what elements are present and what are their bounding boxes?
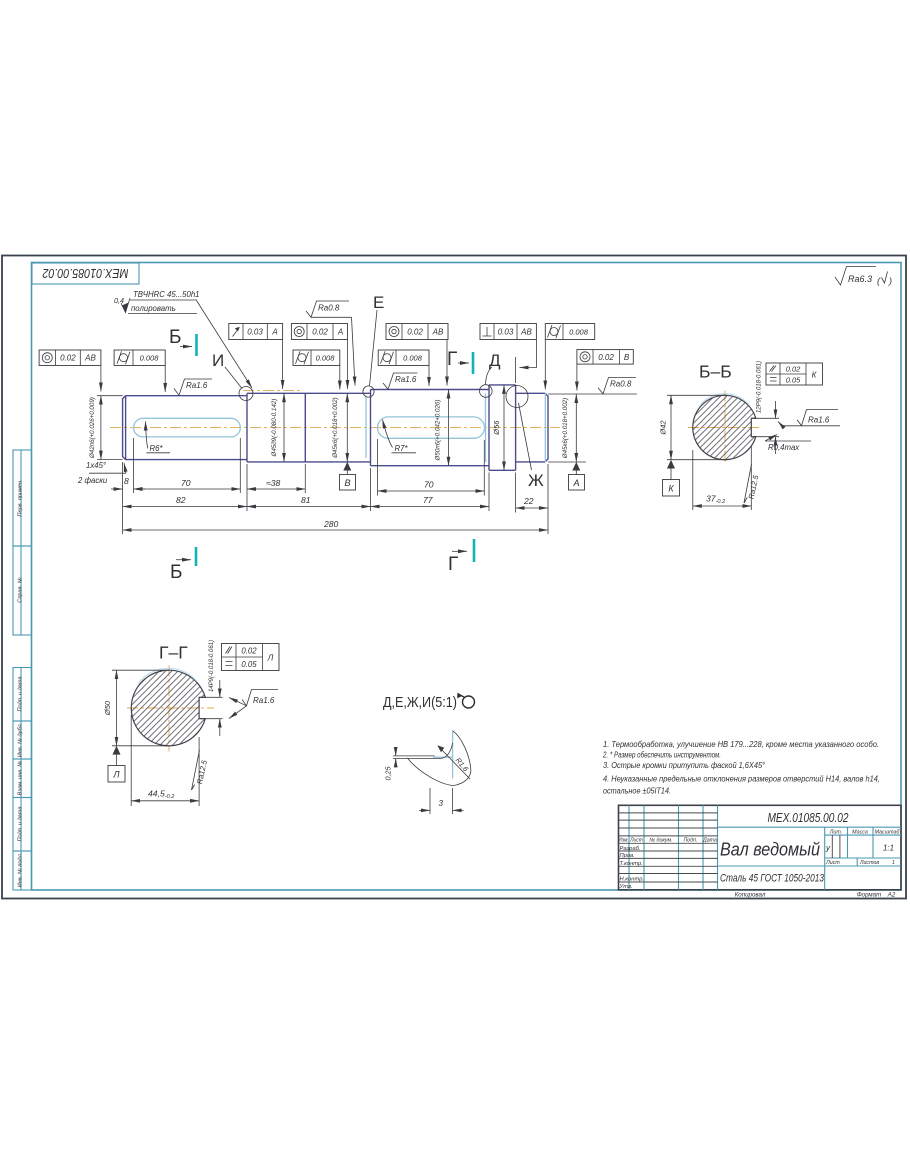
svg-text:Ø50п6(+0.042+0.026): Ø50п6(+0.042+0.026) bbox=[435, 400, 442, 462]
detail dim 0.25 bbox=[384, 748, 396, 781]
svg-text:Л: Л bbox=[112, 770, 120, 780]
roughness Ra1.6 on Ø50 bbox=[383, 373, 418, 389]
dim 8 bbox=[111, 476, 145, 489]
svg-text:В: В bbox=[624, 353, 630, 362]
dim ≈38 bbox=[247, 478, 305, 489]
svg-text:70: 70 bbox=[181, 478, 191, 488]
Ra1.6 with leaders (Г-Г notch) bbox=[229, 690, 278, 719]
svg-text:А: А bbox=[271, 328, 277, 337]
designation box rotated 180 bbox=[32, 263, 139, 284]
Ra12.5 rotated (Г-Г) bbox=[192, 750, 210, 790]
svg-text:0,25: 0,25 bbox=[384, 766, 393, 781]
dim 12Р9 keyway width bbox=[751, 361, 779, 454]
svg-text:Ø50: Ø50 bbox=[103, 700, 112, 716]
label R7* with leader bbox=[383, 420, 417, 454]
FCF coaxiality 0.02 АВ (far left) bbox=[39, 350, 101, 392]
keyway 2 (R7) bbox=[378, 417, 485, 438]
dim Ø50 with datum Л bbox=[103, 670, 170, 782]
shaft axis centerline bbox=[110, 427, 560, 429]
dim 70 (keyway 2) bbox=[378, 480, 485, 492]
roughness Ra0.8 right with extension bbox=[548, 378, 637, 395]
extension lines below shaft bbox=[123, 438, 548, 534]
svg-text:Ø42п6(+0.026+0.009): Ø42п6(+0.026+0.009) bbox=[89, 397, 96, 459]
left margin stamp: Инв. № подл. bbox=[13, 851, 32, 890]
svg-text:Г–Г: Г–Г bbox=[159, 643, 188, 663]
FCF parallel/symmetry К bbox=[766, 363, 823, 385]
svg-text:Инв. № дубл.: Инв. № дубл. bbox=[18, 723, 24, 757]
svg-text:Г: Г bbox=[447, 349, 457, 370]
title block right part grid bbox=[718, 827, 902, 890]
svg-text:R6*: R6* bbox=[150, 444, 164, 453]
svg-text:Ra0.8: Ra0.8 bbox=[318, 304, 340, 313]
section mark Г top bbox=[447, 349, 473, 374]
label Ж with leader bbox=[519, 403, 545, 490]
dim 82 bbox=[123, 495, 247, 507]
dim 70 (keyway 1) bbox=[134, 478, 241, 489]
svg-text:0.02: 0.02 bbox=[60, 354, 76, 363]
svg-text:Взам. инв. №: Взам. инв. № bbox=[18, 761, 24, 796]
FCF perpendicularity 0.03 АВ bbox=[480, 324, 536, 384]
dim Ø42 with datum К bbox=[659, 395, 728, 496]
title block change-row lines bbox=[619, 813, 718, 882]
Г-Г hatched section with keyway notch bbox=[131, 670, 205, 746]
svg-text:Лит.: Лит. bbox=[829, 829, 842, 835]
svg-text:Ra1.6: Ra1.6 bbox=[808, 416, 830, 425]
dim Ø56 bbox=[492, 385, 504, 470]
svg-text:1: 1 bbox=[892, 860, 895, 866]
svg-text:): ) bbox=[888, 276, 892, 286]
svg-text:Д: Д bbox=[489, 351, 501, 370]
Ra12.5 rotated (Б-Б) bbox=[744, 464, 761, 503]
dim 44.5-0.2 bbox=[131, 715, 199, 806]
FCF coaxiality 0.02 В (right) bbox=[577, 350, 633, 391]
right face chamfer edge light blue bbox=[544, 393, 546, 462]
svg-text:И: И bbox=[212, 351, 224, 370]
svg-text:Инв. № подл.: Инв. № подл. bbox=[18, 853, 24, 888]
Ra1.6 with leader (Б-Б flat) bbox=[778, 410, 840, 426]
svg-text:Вал ведомый: Вал ведомый bbox=[720, 839, 820, 860]
svg-text:Ж: Ж bbox=[528, 471, 544, 490]
left margin stamp: Инв. № дубл. bbox=[13, 721, 32, 759]
svg-text:А: А bbox=[337, 328, 343, 337]
Б-Б light blue rim arc bbox=[701, 394, 749, 405]
svg-text:Ra1.6: Ra1.6 bbox=[253, 696, 275, 705]
left margin stamp: Подп. и дата (lower) bbox=[13, 798, 32, 852]
svg-text:0.03: 0.03 bbox=[247, 328, 263, 337]
svg-text:0.02: 0.02 bbox=[598, 353, 614, 362]
svg-text:70: 70 bbox=[424, 480, 434, 490]
svg-text:81: 81 bbox=[301, 495, 311, 505]
detail groove profile bbox=[393, 731, 471, 786]
keyway 1 (R6) bbox=[134, 418, 241, 437]
svg-text:12Р9(-0.018-0.061): 12Р9(-0.018-0.061) bbox=[757, 361, 763, 413]
left margin stamp: Подп. и дата (upper) bbox=[13, 668, 32, 722]
shaft collar Ø56 outline bbox=[489, 385, 516, 470]
dim Ø45к6 (mid) with datum В bbox=[332, 393, 356, 490]
FCF cylindricity 0.008 (right) bbox=[545, 324, 594, 390]
svg-text:Перв. примен.: Перв. примен. bbox=[18, 479, 24, 516]
svg-text:Утв.: Утв. bbox=[619, 884, 633, 890]
svg-text:8: 8 bbox=[124, 476, 129, 486]
svg-text:полировать: полировать bbox=[131, 304, 176, 313]
svg-text:Б: Б bbox=[169, 327, 181, 348]
svg-text:0.03: 0.03 bbox=[498, 328, 514, 337]
svg-text:77: 77 bbox=[423, 495, 434, 505]
svg-text:Г: Г bbox=[448, 554, 458, 575]
dim 14Р9 keyway width (Г-Г) bbox=[199, 640, 222, 736]
FCF cylindricity 0.008 (mid-right) bbox=[378, 350, 429, 386]
svg-text:82: 82 bbox=[176, 495, 186, 505]
svg-text:0.02: 0.02 bbox=[407, 328, 423, 337]
label Д with leader bbox=[486, 351, 502, 385]
svg-text:Пров.: Пров. bbox=[620, 853, 635, 859]
svg-text:0.02: 0.02 bbox=[786, 365, 801, 374]
svg-text:Лист: Лист bbox=[825, 860, 840, 866]
detail dim 3 bbox=[419, 788, 464, 814]
FCF cylindricity 0.008 (mid) bbox=[293, 350, 340, 390]
svg-text:Т.контр.: Т.контр. bbox=[620, 861, 643, 867]
label Е with leader bbox=[370, 293, 385, 386]
svg-text:А: А bbox=[572, 478, 579, 488]
svg-text:0.02: 0.02 bbox=[312, 328, 328, 337]
dim 280 bbox=[123, 519, 548, 530]
svg-text:Изм.: Изм. bbox=[618, 837, 629, 843]
svg-text:3: 3 bbox=[439, 799, 444, 808]
svg-text:Ra0.8: Ra0.8 bbox=[610, 380, 632, 389]
svg-text:Ra1.6: Ra1.6 bbox=[186, 381, 208, 390]
svg-text:Ø45д9(-0.080-0.142): Ø45д9(-0.080-0.142) bbox=[271, 399, 278, 458]
svg-text:Разраб.: Разраб. bbox=[620, 846, 641, 852]
FCF parallel/symmetry Л bbox=[222, 644, 280, 671]
roughness Ra0.8 for groove Е with leader bbox=[306, 301, 355, 386]
svg-text:1. Термообработка, улучшение Н: 1. Термообработка, улучшение НВ 179...22… bbox=[603, 740, 879, 749]
svg-text:R0,4max: R0,4max bbox=[768, 443, 800, 452]
svg-text:Лист: Лист bbox=[629, 837, 643, 843]
svg-text:Формат: Формат bbox=[857, 892, 882, 899]
dim 22 bbox=[516, 496, 548, 508]
svg-text:14Р9(-0.018-0.061): 14Р9(-0.018-0.061) bbox=[209, 640, 215, 692]
svg-text:АВ: АВ bbox=[520, 328, 532, 337]
svg-text:МЕХ.01085.00.02: МЕХ.01085.00.02 bbox=[768, 810, 850, 825]
groove edge light blue at E bbox=[365, 397, 367, 459]
svg-text:0.008: 0.008 bbox=[403, 354, 423, 363]
left margin stamp: Взам. инв. № bbox=[13, 759, 32, 798]
section mark Г bottom bbox=[448, 539, 474, 575]
chamfer note 1x45 2 фаски bbox=[77, 461, 126, 485]
svg-text:0.008: 0.008 bbox=[140, 354, 160, 363]
dim Ø45к6 right with datum А bbox=[548, 394, 586, 490]
svg-text:0.008: 0.008 bbox=[569, 328, 589, 337]
roughness Ra1.6 on Ø42 bbox=[174, 379, 212, 395]
svg-text:Ø56: Ø56 bbox=[492, 420, 501, 436]
title block column lines left part bbox=[629, 805, 718, 890]
svg-text:Ø42: Ø42 bbox=[659, 420, 668, 436]
FCF cylindricity 0.008 (left) bbox=[114, 350, 165, 392]
left margin stamp: Справ. № bbox=[13, 546, 32, 635]
svg-text:1х45°: 1х45° bbox=[86, 461, 106, 470]
detail R1.6 label bbox=[437, 745, 470, 779]
Б-Б hatched section with keyway flat bbox=[693, 395, 756, 459]
svg-text:0.05: 0.05 bbox=[786, 376, 801, 385]
FCF runout 0.03 A bbox=[229, 324, 283, 390]
svg-text:0.02: 0.02 bbox=[241, 647, 257, 656]
svg-text:Е: Е bbox=[373, 293, 384, 312]
svg-text:2 фаски: 2 фаски bbox=[77, 476, 108, 485]
FCF coaxiality 0.02 A bbox=[291, 324, 347, 390]
Г-Г centerlines bbox=[127, 707, 214, 709]
R0.4max label bbox=[765, 435, 811, 453]
svg-text:Листов: Листов bbox=[859, 860, 880, 866]
dim Ø50п6 bbox=[435, 390, 449, 466]
svg-text:Дата: Дата bbox=[702, 838, 717, 844]
svg-text:2. * Размер обеспечить инструм: 2. * Размер обеспечить инструментом. bbox=[602, 751, 721, 760]
label R6* with leader bbox=[146, 422, 171, 454]
svg-text:Б: Б bbox=[170, 562, 182, 583]
svg-text:АВ: АВ bbox=[84, 354, 96, 363]
svg-text:Подп. и дата: Подп. и дата bbox=[18, 806, 24, 841]
svg-text:№ докум.: № докум. bbox=[649, 838, 672, 844]
dim 37-0.2 bbox=[693, 446, 752, 510]
svg-text:1:1: 1:1 bbox=[883, 844, 894, 853]
dim 81 bbox=[247, 495, 371, 507]
section mark Б top bbox=[169, 327, 197, 356]
sheet outer border bbox=[2, 256, 906, 899]
dim Ø45д9 bbox=[271, 393, 284, 462]
svg-text:280: 280 bbox=[323, 519, 339, 529]
groove circle Е bbox=[363, 386, 374, 397]
svg-text:Д,Е,Ж,И(5:1): Д,Е,Ж,И(5:1) bbox=[383, 694, 457, 711]
svg-text:Ra6.3: Ra6.3 bbox=[848, 274, 872, 284]
svg-text:4. Неуказанные предельные откл: 4. Неуказанные предельные отклонения раз… bbox=[603, 775, 880, 784]
svg-text:В: В bbox=[344, 478, 350, 488]
svg-text:остальное ±05IT14.: остальное ±05IT14. bbox=[603, 787, 671, 796]
svg-text:Л: Л bbox=[267, 654, 274, 663]
svg-text:А2: А2 bbox=[887, 892, 896, 899]
hardening note ТВЧ HRC with polish symbol bbox=[114, 290, 252, 388]
svg-text:0.008: 0.008 bbox=[316, 354, 336, 363]
left margin stamp: Перв. примен. bbox=[13, 450, 32, 546]
svg-text:R7*: R7* bbox=[395, 444, 409, 453]
svg-text:Справ. №: Справ. № bbox=[18, 577, 24, 602]
Lit sub-cell dividers bbox=[831, 835, 833, 858]
shaft section Ø42 outline bbox=[123, 396, 247, 460]
groove circle Д bbox=[480, 385, 493, 398]
title block outer border bbox=[619, 805, 902, 890]
label И with leader bbox=[212, 351, 242, 389]
svg-text:Ø45к6(+0.018+0.002): Ø45к6(+0.018+0.002) bbox=[562, 398, 569, 459]
FCF coaxiality 0.02 АВ bbox=[386, 324, 448, 386]
svg-text:Масса: Масса bbox=[852, 829, 868, 835]
groove centerline near step bbox=[243, 390, 301, 392]
svg-text:Подп.: Подп. bbox=[683, 838, 697, 844]
svg-text:≈38: ≈38 bbox=[266, 478, 280, 488]
detail title bbox=[383, 693, 475, 712]
svg-text:3. Острые кромки притупить фас: 3. Острые кромки притупить фаской 1,6Х45… bbox=[603, 761, 766, 770]
shaft section Ø45 outline bbox=[247, 393, 371, 462]
Б-Б centerlines bbox=[688, 427, 762, 429]
svg-text:Ra1.6: Ra1.6 bbox=[395, 375, 417, 384]
drawing inner frame bbox=[32, 263, 902, 891]
shaft section Ø50 outline bbox=[371, 390, 490, 466]
dim Ø42п6 left bbox=[89, 396, 123, 460]
groove circle И bbox=[239, 387, 253, 401]
svg-text:ТВЧHRC 45...50h1: ТВЧHRC 45...50h1 bbox=[133, 290, 200, 299]
svg-text:22: 22 bbox=[523, 496, 534, 506]
svg-text:Масштаб: Масштаб bbox=[875, 829, 901, 835]
svg-text:Сталь 45 ГОСТ 1050-2013: Сталь 45 ГОСТ 1050-2013 bbox=[720, 873, 825, 885]
shaft section Ø45k6 right outline bbox=[516, 393, 548, 462]
svg-text:0,4: 0,4 bbox=[114, 296, 124, 305]
title block bbox=[618, 805, 901, 898]
svg-text:Копировал: Копировал bbox=[735, 892, 766, 899]
svg-text:МЕХ.01085.00.02: МЕХ.01085.00.02 bbox=[42, 266, 128, 280]
svg-text:Н.контр.: Н.контр. bbox=[620, 877, 645, 883]
Г-Г light blue rim arc bbox=[138, 668, 197, 683]
svg-text:Подп. и дата: Подп. и дата bbox=[18, 676, 24, 711]
groove circle Ж bbox=[506, 386, 528, 408]
dim 77 bbox=[371, 495, 490, 507]
svg-text:0.05: 0.05 bbox=[241, 660, 257, 669]
svg-text:Ø45к6(+0.018+0.002): Ø45к6(+0.018+0.002) bbox=[332, 397, 339, 458]
groove edge light blue at Д bbox=[485, 394, 487, 463]
svg-text:АВ: АВ bbox=[432, 328, 444, 337]
svg-text:К: К bbox=[668, 484, 674, 494]
section mark Б bottom bbox=[170, 547, 196, 583]
svg-text:Б–Б: Б–Б bbox=[699, 362, 732, 382]
general roughness mark Ra6.3 top right bbox=[835, 267, 892, 287]
